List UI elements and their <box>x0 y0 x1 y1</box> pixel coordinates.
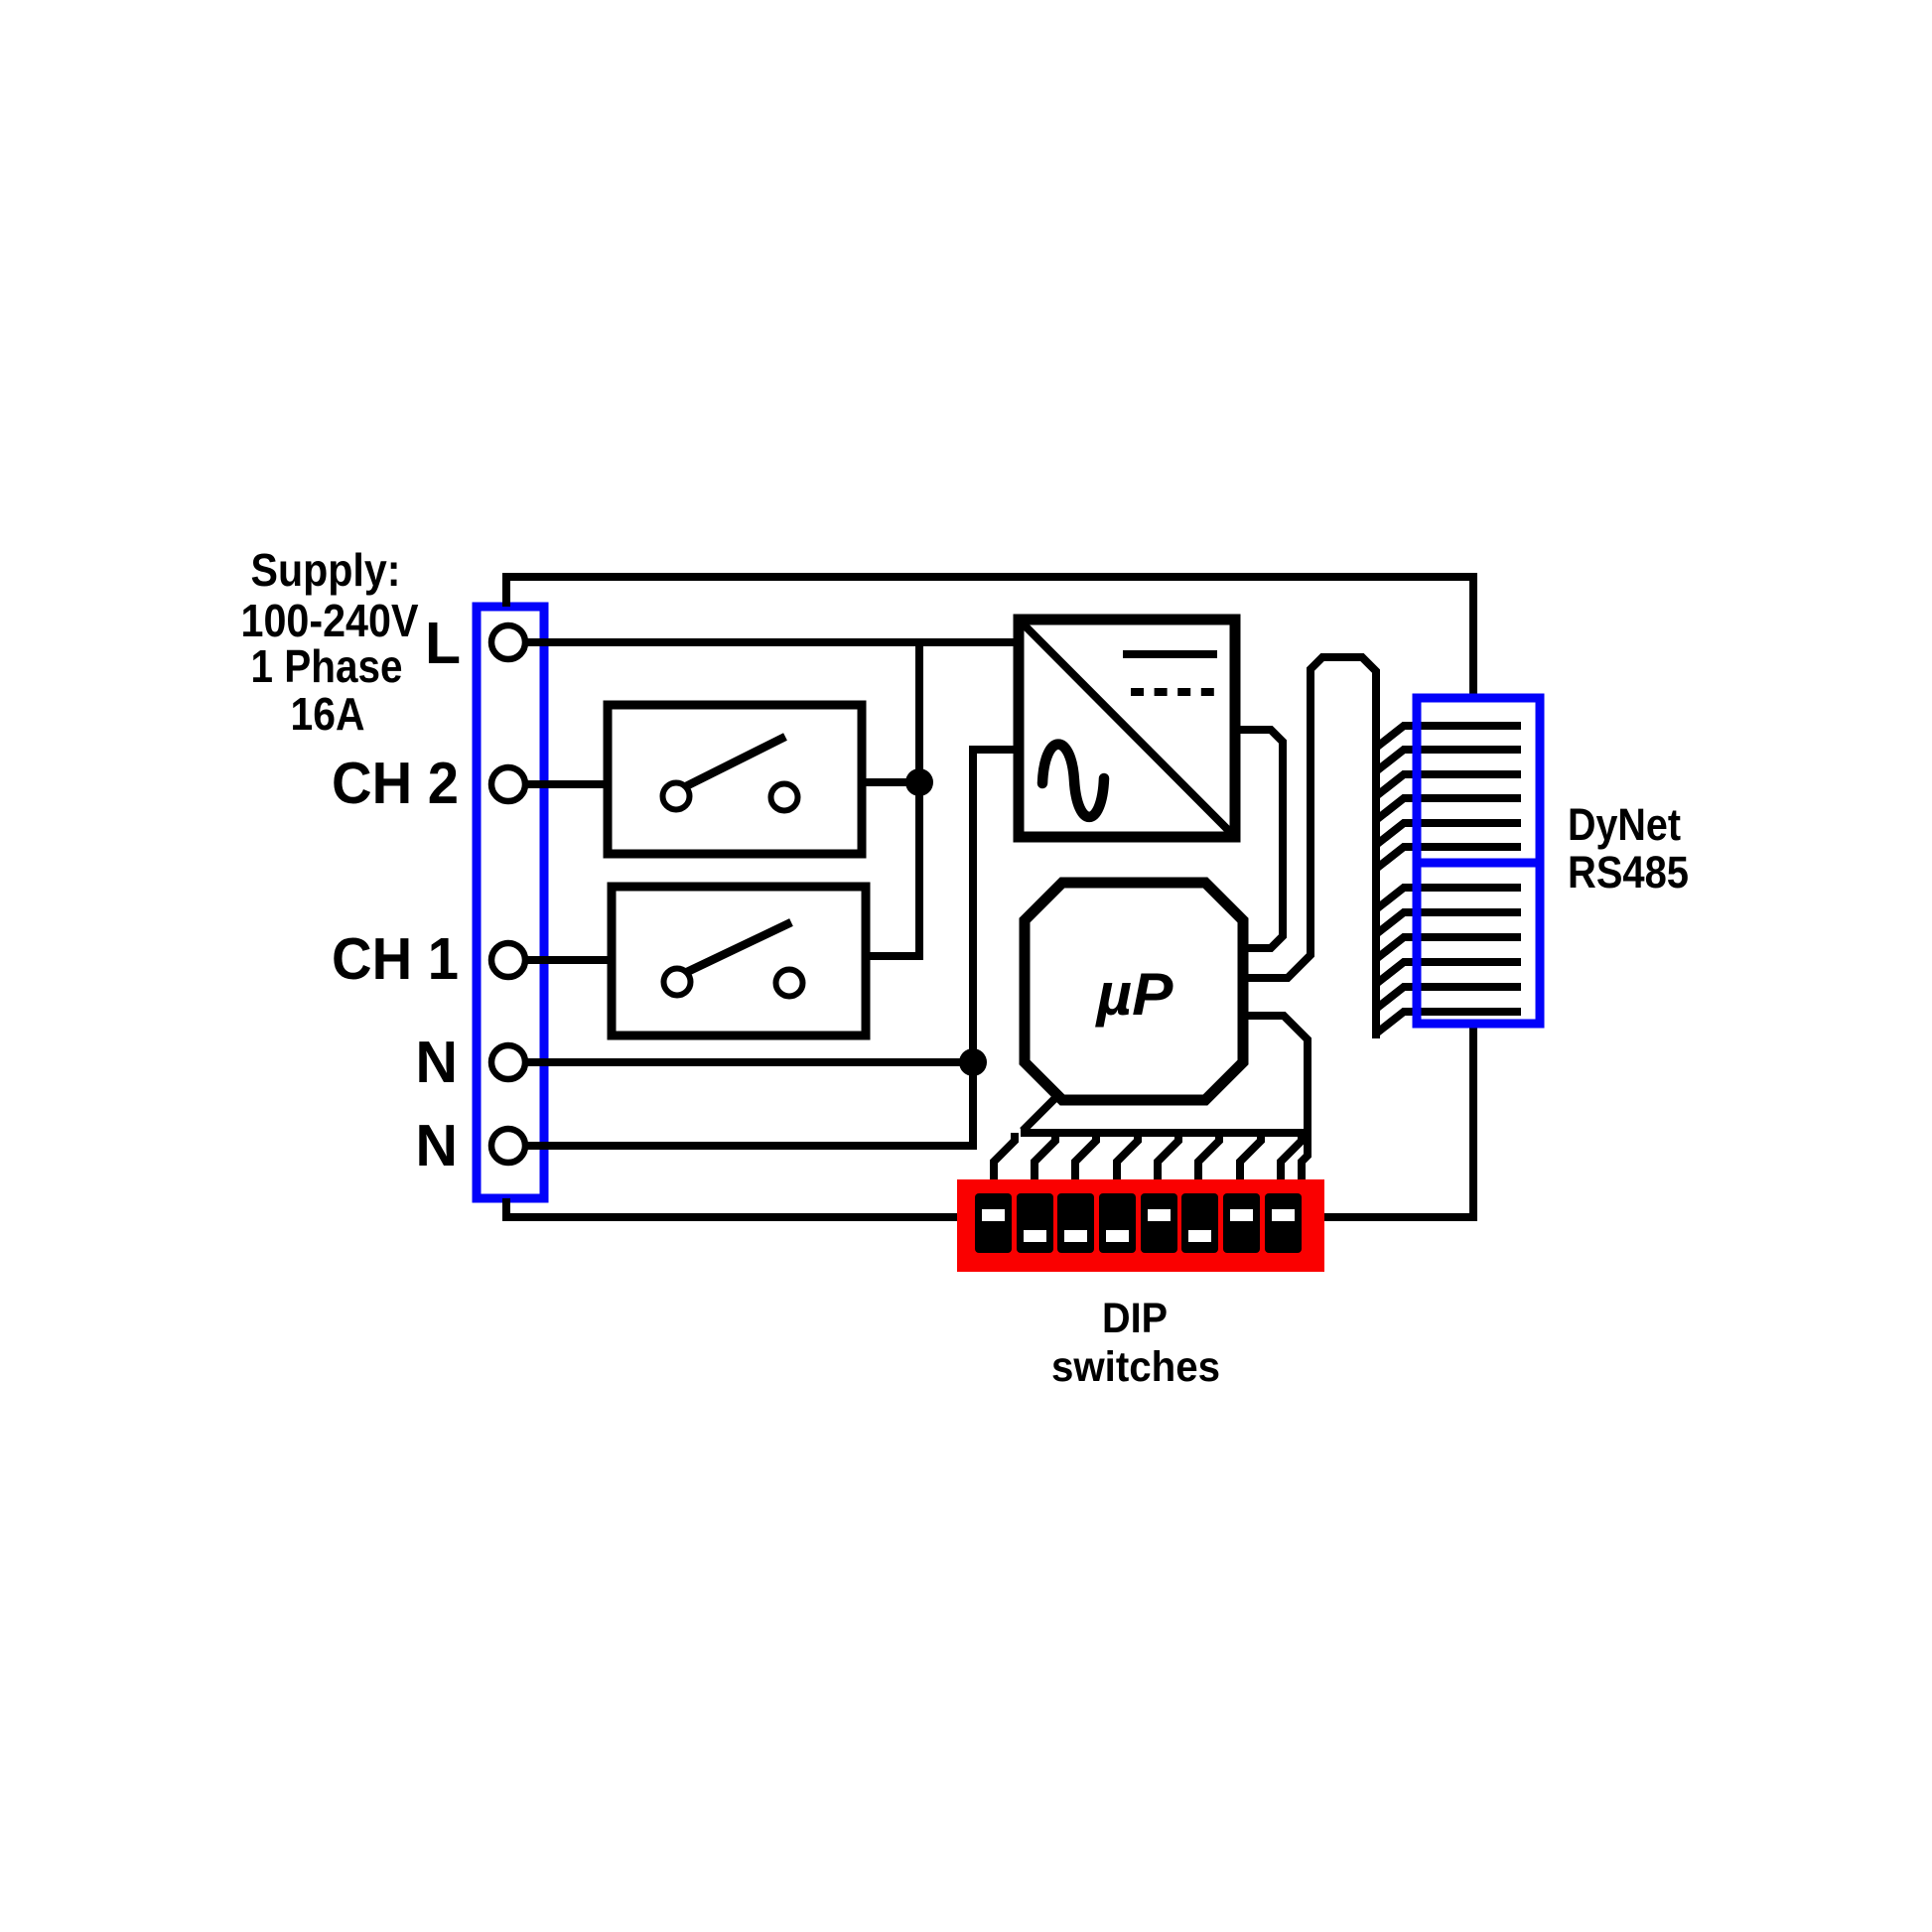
svg-text:switches: switches <box>1051 1343 1220 1391</box>
wire DIP bus to microprocessor corner <box>1023 1095 1058 1131</box>
enclosure bottom rail wire (right) <box>1324 1024 1473 1217</box>
wire CH2 terminal to relay K2 <box>523 780 608 788</box>
DIP pin 2 <box>1035 1133 1055 1184</box>
DyNet connector divider <box>1417 859 1540 868</box>
svg-text:N: N <box>415 1030 458 1095</box>
terminal CH1 <box>491 943 525 977</box>
DIP pin 3 <box>1075 1133 1096 1184</box>
terminal CH2 <box>491 767 525 801</box>
terminal L <box>491 625 525 659</box>
relay K1 left contact <box>664 969 691 996</box>
svg-text:100-240V: 100-240V <box>241 595 419 646</box>
wire relay K1 output <box>866 952 923 960</box>
svg-text:1 Phase: 1 Phase <box>251 640 403 692</box>
junction dot relay outputs / L <box>905 768 933 796</box>
microprocessor U2 octagon <box>1025 883 1243 1100</box>
wire power supply to microprocessor <box>1235 730 1283 948</box>
relay K1 (CH 1) box <box>612 887 866 1035</box>
svg-text:µP: µP <box>1094 961 1173 1028</box>
DyNet pin 12 <box>1376 1012 1521 1034</box>
DIP pin 6 <box>1198 1133 1219 1184</box>
relay K2 (CH 2) box <box>608 705 862 854</box>
DIP switch 4 <box>1099 1193 1136 1253</box>
DyNet pin 5 <box>1376 823 1521 845</box>
svg-text:RS485: RS485 <box>1568 847 1689 897</box>
terminal N2 <box>491 1129 525 1163</box>
DyNet pin 10 <box>1376 962 1521 984</box>
DIP pin 1 <box>994 1133 1015 1184</box>
DyNet pin 1 <box>1376 726 1521 748</box>
terminal N1 <box>491 1045 525 1079</box>
relay K2 lever <box>686 737 785 786</box>
DIP pin 5 <box>1158 1133 1178 1184</box>
DyNet pin 7 <box>1376 888 1521 909</box>
wire microprocessor to DIP header bus <box>1021 1016 1308 1133</box>
relay K2 right contact <box>771 784 798 811</box>
wire L branch vertical to relay outputs <box>915 639 923 960</box>
junction dot N node <box>959 1048 987 1076</box>
wire relay K2 output <box>862 778 919 786</box>
DyNet pin 2 <box>1376 750 1521 771</box>
svg-text:DIP: DIP <box>1102 1295 1168 1342</box>
DIP switch 5 <box>1141 1193 1177 1253</box>
DIP pin 9 <box>1302 1133 1308 1184</box>
svg-text:16A: 16A <box>291 688 365 740</box>
DyNet pin 8 <box>1376 912 1521 934</box>
DIP switch 6 <box>1181 1193 1218 1253</box>
DIP switch block S1 (red) <box>957 1179 1324 1272</box>
DIP pin 7 <box>1240 1133 1261 1184</box>
wire N2 terminal to node and up to power supply <box>525 750 1023 1146</box>
DIP switch 8 <box>1265 1193 1302 1253</box>
DyNet pin 11 <box>1376 987 1521 1009</box>
wire CH1 terminal to relay K1 <box>523 956 612 964</box>
power supply AC sine symbol <box>1042 745 1104 817</box>
svg-text:DyNet: DyNet <box>1568 799 1681 850</box>
svg-text:N: N <box>415 1113 458 1178</box>
DyNet pin 4 <box>1376 798 1521 820</box>
power supply DC solid line <box>1123 650 1217 658</box>
svg-text:CH 2: CH 2 <box>332 751 459 816</box>
svg-text:Supply:: Supply: <box>251 544 401 596</box>
DyNet pin 6 <box>1376 847 1521 869</box>
DIP switch 2 <box>1017 1193 1053 1253</box>
DIP switch 1 <box>975 1193 1012 1253</box>
DIP switch 3 <box>1057 1193 1094 1253</box>
relay K1 right contact <box>776 970 803 997</box>
DIP switch 7 <box>1223 1193 1260 1253</box>
DyNet pin 9 <box>1376 937 1521 959</box>
wire microprocessor to DyNet bus <box>1243 657 1376 1038</box>
enclosure top rail wire <box>506 577 1473 698</box>
DIP pin 4 <box>1117 1133 1138 1184</box>
wire N1 terminal to node <box>525 1058 973 1066</box>
svg-text:L: L <box>425 611 461 676</box>
wire L terminal to power supply <box>523 638 1023 646</box>
DyNet RS485 connector (blue) <box>1417 698 1540 1024</box>
relay K2 left contact <box>663 783 690 810</box>
supply terminal block (blue) <box>477 607 544 1198</box>
DIP pin 8 <box>1281 1133 1302 1184</box>
DyNet pin 3 <box>1376 774 1521 796</box>
power supply diagonal <box>1023 623 1231 833</box>
svg-text:CH 1: CH 1 <box>332 926 459 992</box>
power supply U1 box <box>1019 620 1235 837</box>
power supply DC dashed line <box>1131 688 1214 696</box>
enclosure bottom rail wire (left) <box>506 1198 957 1217</box>
relay K1 lever <box>687 922 791 972</box>
